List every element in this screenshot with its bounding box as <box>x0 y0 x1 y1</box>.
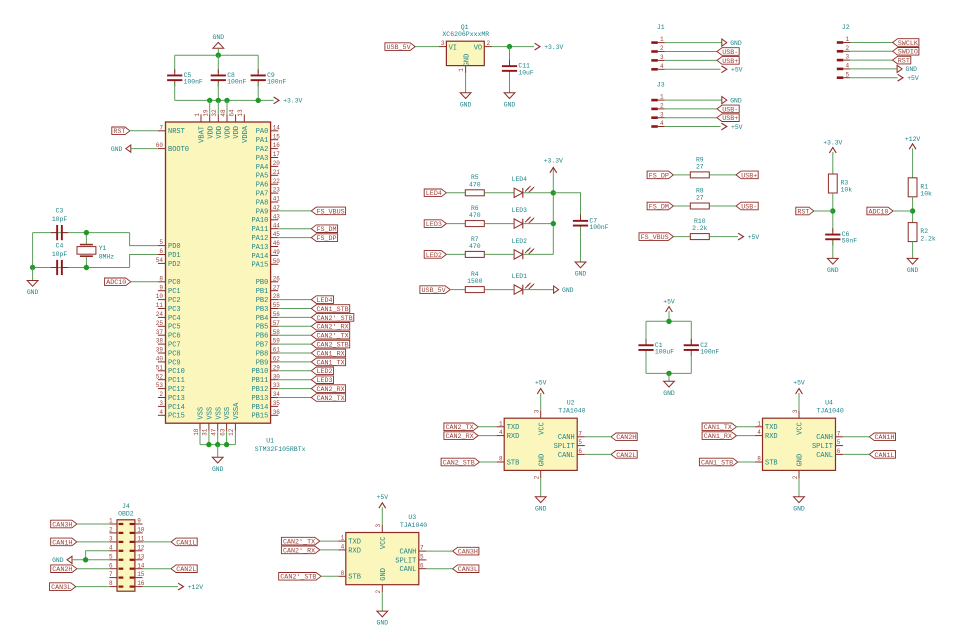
svg-text:24: 24 <box>156 311 164 318</box>
net label CAN2_TX <box>444 423 478 431</box>
J4 pin 10 <box>135 532 143 534</box>
svg-text:PC3: PC3 <box>168 306 181 314</box>
svg-text:TXD: TXD <box>507 424 520 432</box>
ground <box>27 281 38 287</box>
svg-text:3: 3 <box>846 54 850 61</box>
U4 pin 2 GND <box>798 470 800 478</box>
svg-text:VSS: VSS <box>215 407 223 420</box>
svg-text:R10: R10 <box>694 218 706 225</box>
svg-text:13: 13 <box>137 553 145 560</box>
J4 pin 16 <box>135 586 143 588</box>
net label CAN2'_RX <box>311 323 349 331</box>
svg-text:GND: GND <box>504 101 516 108</box>
power +5V <box>666 307 673 312</box>
svg-text:R8: R8 <box>696 187 704 194</box>
svg-text:1: 1 <box>846 36 850 43</box>
wire <box>737 435 755 437</box>
wire <box>646 372 691 374</box>
junction <box>224 442 229 447</box>
wire <box>798 478 800 497</box>
J4 pin 3 <box>109 541 117 543</box>
svg-text:3: 3 <box>660 54 664 61</box>
U2 pin 3 VCC <box>540 411 542 419</box>
wire <box>465 73 467 93</box>
wire <box>832 193 834 232</box>
svg-text:TJA1040: TJA1040 <box>400 522 427 529</box>
svg-text:48: 48 <box>220 109 227 117</box>
wire <box>174 82 176 100</box>
ground <box>377 611 388 617</box>
wire <box>484 253 514 255</box>
wire to CAN2_STB <box>278 343 311 345</box>
svg-text:CAN2'_TX: CAN2'_TX <box>317 333 349 341</box>
wire to CAN2'_STB <box>278 316 311 318</box>
svg-text:2: 2 <box>534 475 541 479</box>
svg-text:52: 52 <box>156 373 164 380</box>
svg-text:CAN1L: CAN1L <box>875 452 895 460</box>
J4 pin 12 <box>135 550 143 552</box>
wire <box>645 351 647 373</box>
svg-text:CANL: CANL <box>816 452 833 460</box>
svg-text:2: 2 <box>159 391 163 398</box>
net label CAN1H <box>51 538 77 546</box>
svg-text:15: 15 <box>273 133 281 140</box>
J4 pin 2 <box>109 532 117 534</box>
svg-text:CAN2_TX: CAN2_TX <box>446 424 474 432</box>
wire <box>217 100 219 114</box>
svg-text:PB5: PB5 <box>256 324 269 332</box>
U4 pin 8 STB <box>755 461 763 463</box>
svg-text:3: 3 <box>375 524 382 528</box>
svg-text:+3.3V: +3.3V <box>544 157 563 164</box>
wire <box>850 68 897 70</box>
svg-text:1: 1 <box>194 113 201 117</box>
wire <box>175 54 259 56</box>
svg-text:PA7: PA7 <box>256 191 269 199</box>
svg-text:9: 9 <box>159 284 163 291</box>
led LED1 <box>514 285 523 294</box>
power +12V <box>909 144 916 149</box>
U1 left pins PD0-PD2 <box>158 245 166 247</box>
svg-text:10pF: 10pF <box>52 251 68 258</box>
wire <box>798 393 800 411</box>
svg-text:43: 43 <box>273 213 281 220</box>
svg-text:27: 27 <box>696 164 704 171</box>
wire <box>143 541 172 543</box>
svg-text:LED4: LED4 <box>512 176 528 183</box>
svg-text:7: 7 <box>420 545 424 552</box>
wire <box>645 321 647 344</box>
net label CAN2L <box>611 451 637 459</box>
wire <box>673 205 690 207</box>
wire <box>668 311 670 321</box>
wire <box>492 46 534 48</box>
svg-text:TXD: TXD <box>348 539 361 547</box>
svg-text:2.2k: 2.2k <box>920 235 936 242</box>
svg-text:VCC: VCC <box>538 422 546 435</box>
svg-text:PC6: PC6 <box>168 333 181 341</box>
svg-text:CAN1_STB: CAN1_STB <box>701 459 733 467</box>
wire <box>832 152 834 174</box>
svg-text:3: 3 <box>159 400 163 407</box>
net label FS_DM <box>311 225 337 233</box>
svg-text:PA14: PA14 <box>251 253 268 261</box>
svg-text:CANH: CANH <box>558 434 575 442</box>
wire <box>33 232 130 234</box>
svg-text:CAN1L: CAN1L <box>176 539 196 547</box>
wire <box>553 193 580 220</box>
svg-text:15: 15 <box>137 571 145 578</box>
svg-text:32: 32 <box>211 109 218 117</box>
wire <box>320 549 338 551</box>
wire <box>509 72 511 93</box>
svg-text:R1: R1 <box>920 183 928 190</box>
svg-text:8: 8 <box>109 580 113 587</box>
svg-text:CAN2_RX: CAN2_RX <box>446 433 474 441</box>
svg-text:4: 4 <box>159 409 163 416</box>
wire <box>226 100 228 114</box>
wire <box>77 568 110 570</box>
ground <box>907 258 918 264</box>
wire <box>665 108 718 110</box>
svg-text:OBD2: OBD2 <box>118 511 134 518</box>
svg-text:TJA1040: TJA1040 <box>558 408 585 415</box>
power +5V <box>537 389 544 394</box>
svg-text:CAN2'_STB: CAN2'_STB <box>280 574 316 582</box>
capacitor C8 <box>217 69 219 75</box>
wire <box>850 77 898 79</box>
wire <box>32 268 34 281</box>
pin 1 <box>465 66 467 74</box>
wire <box>72 559 109 561</box>
svg-text:VO: VO <box>474 44 482 52</box>
svg-text:ADC10: ADC10 <box>869 208 889 216</box>
U2 pin 8 STB <box>497 461 505 463</box>
J4 pin 4 <box>109 550 117 552</box>
svg-text:GND: GND <box>730 97 742 104</box>
resistor R10 <box>690 234 709 240</box>
J3 pin 4 <box>651 125 658 128</box>
svg-text:SPLIT: SPLIT <box>812 443 833 451</box>
J1 pin 4 <box>651 68 658 71</box>
svg-text:CAN3L: CAN3L <box>51 584 71 592</box>
svg-text:PC11: PC11 <box>168 377 185 385</box>
net label CAN2'_STB <box>279 573 321 581</box>
net label USB+ <box>717 57 739 65</box>
junction <box>30 265 35 270</box>
svg-text:19: 19 <box>203 109 210 117</box>
power +5V <box>796 389 803 394</box>
svg-text:PC15: PC15 <box>168 413 185 421</box>
ground <box>575 262 586 268</box>
power +5V <box>898 74 903 81</box>
wire <box>33 267 130 269</box>
svg-text:6: 6 <box>109 562 113 569</box>
U2 pin 1 TXD <box>497 426 505 428</box>
svg-text:3: 3 <box>792 409 799 413</box>
net label LED4 <box>311 296 333 304</box>
svg-text:54: 54 <box>156 257 164 264</box>
wire <box>446 253 465 255</box>
junction <box>551 190 556 195</box>
U1 right pins PB0-PB15 <box>271 281 279 283</box>
ground <box>794 497 805 503</box>
svg-text:60: 60 <box>156 142 164 149</box>
wire <box>665 99 722 101</box>
power +3.3V <box>274 97 279 104</box>
svg-text:38: 38 <box>156 338 164 345</box>
wire <box>585 453 611 455</box>
svg-text:1: 1 <box>757 420 761 427</box>
svg-text:SPLIT: SPLIT <box>395 557 416 565</box>
U2 pin 4 RXD <box>497 435 505 437</box>
svg-text:6: 6 <box>837 448 841 455</box>
svg-text:PB8: PB8 <box>256 350 269 358</box>
wire <box>665 126 721 128</box>
svg-text:PB13: PB13 <box>251 395 268 403</box>
svg-text:8: 8 <box>757 456 761 463</box>
svg-text:GND: GND <box>377 620 389 627</box>
svg-text:2: 2 <box>375 590 382 594</box>
net label LED2 <box>311 367 333 375</box>
svg-text:J2: J2 <box>842 24 850 31</box>
J2 pin 3 <box>837 59 844 62</box>
net label USB- <box>717 105 739 113</box>
J4 pin 6 <box>109 568 117 570</box>
svg-text:USB-: USB- <box>722 49 738 57</box>
svg-text:+5V: +5V <box>535 380 547 387</box>
J2 pin 4 <box>837 68 844 71</box>
svg-text:1: 1 <box>458 68 465 72</box>
svg-text:USB_5V: USB_5V <box>387 44 411 52</box>
svg-text:PA5: PA5 <box>256 173 269 181</box>
net label FS_DP <box>311 234 337 242</box>
wire <box>690 351 692 373</box>
U3 pin 8 STB <box>338 575 346 577</box>
svg-text:PC13: PC13 <box>168 395 185 403</box>
svg-text:FS_DM: FS_DM <box>649 203 669 211</box>
svg-text:GND: GND <box>380 568 388 581</box>
svg-text:GND: GND <box>213 34 225 41</box>
wire <box>131 148 158 150</box>
wire <box>523 289 553 291</box>
svg-text:8: 8 <box>159 275 163 282</box>
svg-text:22: 22 <box>273 178 281 185</box>
net label LED4 <box>424 189 446 197</box>
svg-text:16: 16 <box>273 142 281 149</box>
svg-text:STB: STB <box>348 574 361 582</box>
svg-text:CAN2'_RX: CAN2'_RX <box>317 324 349 332</box>
svg-text:470: 470 <box>469 212 481 219</box>
wire <box>843 453 869 455</box>
svg-text:49: 49 <box>273 249 281 256</box>
resistor R2 <box>908 223 917 242</box>
svg-text:LED3: LED3 <box>512 207 528 214</box>
net label CAN2'_TX <box>281 537 319 545</box>
svg-text:USB-: USB- <box>741 203 757 211</box>
ground <box>535 497 546 503</box>
svg-text:GND: GND <box>535 505 547 512</box>
svg-text:3: 3 <box>441 40 445 47</box>
net label SWCLK <box>893 39 919 47</box>
svg-text:37: 37 <box>156 329 164 336</box>
ground flag <box>67 556 72 563</box>
svg-text:GND: GND <box>212 466 224 473</box>
wire to FS_VBUS <box>278 210 311 212</box>
svg-text:10uF: 10uF <box>518 69 534 76</box>
wire <box>321 575 338 577</box>
svg-text:J3: J3 <box>657 81 665 88</box>
svg-text:100nF: 100nF <box>700 348 719 355</box>
U2 pin 2 GND <box>540 470 542 478</box>
capacitor C11 <box>509 60 511 66</box>
junction <box>507 44 512 49</box>
svg-text:GND: GND <box>460 101 472 108</box>
svg-text:12: 12 <box>228 428 235 436</box>
svg-text:VDDA: VDDA <box>242 125 250 143</box>
J1 pin 1 <box>651 41 658 44</box>
svg-text:GND: GND <box>793 505 805 512</box>
svg-text:CAN2_STB: CAN2_STB <box>443 459 475 467</box>
svg-text:U2: U2 <box>567 400 575 407</box>
crystal Y1 <box>80 244 93 246</box>
wire <box>523 223 553 225</box>
svg-text:+5V: +5V <box>731 124 743 131</box>
wire <box>737 426 755 428</box>
wire <box>478 435 496 437</box>
svg-text:J1: J1 <box>657 24 665 31</box>
wire +3.3V rail <box>175 99 274 101</box>
svg-text:CAN2_STB: CAN2_STB <box>317 342 349 350</box>
U3 pin 3 VCC <box>381 525 383 533</box>
wire <box>77 541 110 543</box>
svg-text:100nF: 100nF <box>267 79 286 86</box>
svg-text:1: 1 <box>341 535 345 542</box>
svg-text:9: 9 <box>137 518 141 525</box>
svg-text:1500: 1500 <box>467 278 483 285</box>
svg-text:CAN1_RX: CAN1_RX <box>704 433 732 441</box>
transceiver U3 TJA1040 <box>346 533 419 585</box>
wire <box>665 51 718 53</box>
svg-text:PD2: PD2 <box>168 261 181 269</box>
wire <box>450 289 465 291</box>
junction <box>256 98 261 103</box>
wire <box>217 48 219 55</box>
U2 pin 7 CANH <box>577 436 585 438</box>
svg-text:GND: GND <box>464 54 472 67</box>
pin 3 <box>439 46 447 48</box>
net label LED3 <box>424 220 446 228</box>
wire <box>446 192 465 194</box>
net label RST <box>112 127 130 135</box>
svg-text:26: 26 <box>273 275 281 282</box>
svg-text:Y1: Y1 <box>99 245 107 252</box>
wire to CAN2'_TX <box>278 334 311 336</box>
svg-text:PA9: PA9 <box>256 208 269 216</box>
svg-text:CAN2L: CAN2L <box>176 566 196 574</box>
svg-text:U3: U3 <box>408 514 416 521</box>
svg-text:PC10: PC10 <box>168 368 185 376</box>
svg-text:470: 470 <box>469 243 481 250</box>
svg-text:RXD: RXD <box>348 547 361 555</box>
svg-text:USB-: USB- <box>722 106 738 114</box>
J4 pin 5 <box>109 559 117 561</box>
svg-text:PB10: PB10 <box>251 368 268 376</box>
svg-text:CAN1_RX: CAN1_RX <box>317 350 345 358</box>
svg-text:2: 2 <box>109 527 113 534</box>
wire <box>832 241 834 259</box>
svg-text:21: 21 <box>273 169 281 176</box>
svg-text:LED2: LED2 <box>512 238 528 245</box>
svg-text:5: 5 <box>837 439 841 446</box>
net label CAN2_STB <box>311 340 349 348</box>
wire <box>646 320 691 322</box>
ground flag <box>897 65 902 72</box>
wire <box>143 568 172 570</box>
svg-text:5: 5 <box>420 554 424 561</box>
net label CAN1_RX <box>702 432 736 440</box>
resistor R7 <box>465 251 484 257</box>
svg-text:50: 50 <box>273 258 281 265</box>
resistor R6 <box>465 221 484 227</box>
wire <box>709 205 736 207</box>
resistor R5 <box>465 190 484 196</box>
svg-text:CAN3H: CAN3H <box>458 549 478 557</box>
svg-text:14: 14 <box>273 124 281 131</box>
J3 pin 3 <box>651 116 658 119</box>
junction <box>666 319 671 324</box>
junction <box>216 53 221 58</box>
U4 pin 7 CANH <box>836 436 844 438</box>
wire to CAN2'_RX <box>278 325 311 327</box>
ground <box>213 42 224 48</box>
net label CAN1L <box>869 451 895 459</box>
resistor R9 <box>690 172 709 178</box>
ground flag <box>722 39 727 46</box>
power +3.3V <box>550 167 557 172</box>
svg-text:VBAT: VBAT <box>199 126 207 143</box>
svg-text:VDD: VDD <box>216 126 224 139</box>
svg-text:PC4: PC4 <box>168 315 181 323</box>
svg-text:CAN2'_STB: CAN2'_STB <box>317 315 353 323</box>
J4 pin 15 <box>135 577 143 579</box>
svg-text:3: 3 <box>534 409 541 413</box>
svg-text:10: 10 <box>156 293 164 300</box>
svg-text:GND: GND <box>52 557 64 564</box>
wire <box>912 242 914 259</box>
svg-text:39: 39 <box>156 347 164 354</box>
junction <box>215 442 220 447</box>
svg-text:+5V: +5V <box>793 380 805 387</box>
svg-text:2: 2 <box>487 40 491 47</box>
svg-text:18: 18 <box>193 428 200 436</box>
svg-text:TJA1040: TJA1040 <box>817 408 844 415</box>
wire <box>484 192 514 194</box>
svg-text:PA3: PA3 <box>256 155 269 163</box>
junction <box>207 98 212 103</box>
svg-text:GND: GND <box>575 271 587 278</box>
net label CAN1_STB <box>311 305 349 313</box>
svg-text:4: 4 <box>499 429 503 436</box>
wire <box>738 461 755 463</box>
wire <box>665 59 718 61</box>
svg-text:10pF: 10pF <box>52 216 68 223</box>
wire <box>912 197 914 223</box>
U3 pin 1 TXD <box>338 540 346 542</box>
wire <box>381 507 383 525</box>
svg-text:RXD: RXD <box>765 433 778 441</box>
J4 pin 11 <box>135 541 143 543</box>
